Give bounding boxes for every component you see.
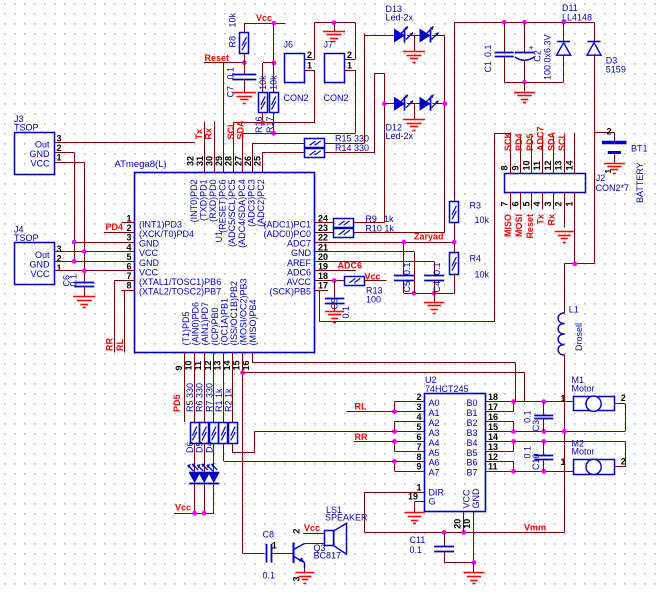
svg-text:GND: GND bbox=[139, 258, 160, 268]
svg-text:SCL: SCL bbox=[557, 132, 567, 151]
svg-text:5: 5 bbox=[126, 252, 131, 262]
svg-text:15: 15 bbox=[488, 422, 498, 432]
svg-text:TSOP: TSOP bbox=[14, 123, 39, 133]
svg-text:CON2*7: CON2*7 bbox=[596, 183, 630, 193]
svg-text:Rx: Rx bbox=[204, 128, 214, 140]
svg-text:MISO: MISO bbox=[503, 214, 513, 237]
svg-text:2: 2 bbox=[292, 529, 302, 534]
svg-text:11: 11 bbox=[488, 462, 498, 472]
svg-text:74HCT245: 74HCT245 bbox=[425, 384, 469, 394]
svg-text:3: 3 bbox=[126, 233, 131, 243]
svg-text:Led-2x: Led-2x bbox=[386, 131, 414, 141]
svg-text:C9: C9 bbox=[329, 298, 339, 310]
svg-text:100.0x6.3V: 100.0x6.3V bbox=[543, 34, 553, 80]
svg-text:D5: D5 bbox=[195, 441, 205, 453]
svg-text:J7: J7 bbox=[324, 40, 334, 50]
svg-text:(INT1)PD3: (INT1)PD3 bbox=[139, 219, 182, 229]
svg-text:1: 1 bbox=[57, 263, 62, 273]
svg-text:21: 21 bbox=[318, 242, 328, 252]
svg-text:6: 6 bbox=[511, 201, 521, 206]
svg-text:A7: A7 bbox=[429, 468, 440, 478]
svg-text:Motor: Motor bbox=[572, 384, 595, 394]
svg-text:8: 8 bbox=[500, 165, 510, 170]
svg-text:D11: D11 bbox=[562, 3, 578, 13]
svg-text:0.1: 0.1 bbox=[483, 44, 493, 57]
svg-text:4: 4 bbox=[532, 201, 542, 206]
svg-text:30: 30 bbox=[205, 156, 215, 166]
svg-text:5: 5 bbox=[416, 422, 421, 432]
svg-text:31: 31 bbox=[195, 156, 205, 166]
svg-text:10k: 10k bbox=[475, 215, 490, 225]
svg-text:C4: C4 bbox=[432, 281, 442, 293]
svg-text:7: 7 bbox=[500, 201, 510, 206]
svg-text:9: 9 bbox=[511, 165, 521, 170]
svg-text:25: 25 bbox=[253, 156, 263, 166]
svg-text:GND: GND bbox=[30, 149, 51, 159]
svg-text:(ADC3)PC3: (ADC3)PC3 bbox=[246, 179, 256, 227]
svg-text:Reset: Reset bbox=[205, 53, 230, 63]
svg-text:1: 1 bbox=[560, 394, 565, 404]
svg-text:Out: Out bbox=[35, 139, 50, 149]
svg-text:PD5: PD5 bbox=[525, 133, 535, 151]
svg-text:MOSI: MOSI bbox=[514, 214, 524, 237]
svg-text:0.1: 0.1 bbox=[402, 262, 412, 275]
svg-text:22: 22 bbox=[318, 233, 328, 243]
svg-text:29: 29 bbox=[214, 156, 224, 166]
svg-text:R2 1k: R2 1k bbox=[224, 388, 234, 412]
svg-text:17: 17 bbox=[318, 281, 328, 291]
svg-text:BATTERY: BATTERY bbox=[635, 162, 645, 203]
svg-text:RR: RR bbox=[355, 432, 368, 442]
svg-text:BT1: BT1 bbox=[631, 143, 648, 153]
svg-text:R14 330: R14 330 bbox=[335, 143, 369, 153]
svg-text:100: 100 bbox=[366, 294, 381, 304]
svg-text:A1: A1 bbox=[429, 408, 440, 418]
svg-text:Vmm: Vmm bbox=[524, 523, 546, 533]
svg-text:1: 1 bbox=[57, 153, 62, 163]
svg-text:18: 18 bbox=[488, 392, 498, 402]
svg-text:1k: 1k bbox=[384, 214, 394, 224]
svg-text:1: 1 bbox=[560, 457, 565, 467]
svg-text:13: 13 bbox=[488, 442, 498, 452]
svg-text:Vcc: Vcc bbox=[304, 523, 320, 533]
svg-text:VCC: VCC bbox=[139, 267, 159, 277]
svg-text:(XCK/T0)PD4: (XCK/T0)PD4 bbox=[139, 229, 194, 239]
svg-text:27: 27 bbox=[233, 156, 243, 166]
svg-text:R4: R4 bbox=[470, 254, 482, 264]
svg-text:2: 2 bbox=[126, 223, 131, 233]
svg-text:SCK: SCK bbox=[503, 131, 513, 151]
svg-text:2: 2 bbox=[621, 393, 626, 403]
svg-text:SDA: SDA bbox=[546, 131, 556, 151]
svg-text:2: 2 bbox=[607, 127, 612, 137]
svg-text:1: 1 bbox=[307, 61, 312, 71]
svg-text:Drosell: Drosell bbox=[574, 323, 584, 351]
svg-text:VCC: VCC bbox=[139, 248, 159, 258]
svg-text:7: 7 bbox=[416, 442, 421, 452]
svg-text:(XTAL2/TOSC2)PB7: (XTAL2/TOSC2)PB7 bbox=[139, 287, 221, 297]
svg-text:(MISO)PB4: (MISO)PB4 bbox=[248, 299, 258, 345]
svg-text:Rx: Rx bbox=[546, 214, 556, 226]
svg-text:19: 19 bbox=[408, 492, 418, 502]
svg-text:B5: B5 bbox=[467, 448, 478, 458]
svg-text:3: 3 bbox=[543, 201, 553, 206]
svg-text:R6 330: R6 330 bbox=[195, 383, 205, 412]
svg-text:PD4: PD4 bbox=[106, 222, 124, 232]
svg-text:9: 9 bbox=[416, 462, 421, 472]
svg-text:R8: R8 bbox=[228, 36, 238, 48]
svg-text:0.1: 0.1 bbox=[263, 571, 276, 581]
svg-text:4: 4 bbox=[416, 412, 421, 422]
svg-text:Reset: Reset bbox=[525, 214, 535, 239]
svg-text:GND: GND bbox=[291, 248, 312, 258]
svg-text:D6: D6 bbox=[185, 441, 195, 453]
svg-text:GND: GND bbox=[30, 260, 51, 270]
svg-text:6: 6 bbox=[416, 432, 421, 442]
svg-text:U1: U1 bbox=[214, 231, 224, 243]
svg-text:20: 20 bbox=[318, 252, 328, 262]
svg-text:2: 2 bbox=[347, 50, 352, 60]
svg-text:RL: RL bbox=[115, 339, 125, 351]
svg-text:ADC7: ADC7 bbox=[536, 126, 546, 151]
svg-text:C5: C5 bbox=[402, 281, 412, 293]
svg-text:Tx: Tx bbox=[194, 129, 204, 140]
svg-text:RL: RL bbox=[355, 402, 367, 412]
svg-text:(SCK)PB5: (SCK)PB5 bbox=[269, 287, 311, 297]
svg-text:ATmega8(L): ATmega8(L) bbox=[115, 159, 167, 170]
svg-text:D4: D4 bbox=[204, 441, 214, 453]
svg-text:10k: 10k bbox=[258, 75, 268, 90]
svg-text:0.1: 0.1 bbox=[226, 67, 236, 80]
svg-text:C11: C11 bbox=[410, 535, 426, 545]
svg-text:B0: B0 bbox=[467, 398, 478, 408]
svg-text:BC817: BC817 bbox=[314, 551, 342, 561]
svg-text:VCC: VCC bbox=[462, 489, 472, 509]
svg-text:SPEAKER: SPEAKER bbox=[325, 512, 368, 522]
svg-text:0.1: 0.1 bbox=[69, 274, 79, 287]
svg-text:GND: GND bbox=[471, 488, 481, 509]
svg-text:AREF: AREF bbox=[287, 258, 312, 268]
svg-text:7: 7 bbox=[126, 271, 131, 281]
svg-text:2: 2 bbox=[416, 392, 421, 402]
svg-text:SCL: SCL bbox=[226, 121, 236, 140]
svg-text:L1: L1 bbox=[569, 304, 579, 314]
svg-text:(AIN1)PD7: (AIN1)PD7 bbox=[200, 302, 210, 346]
svg-text:Tx: Tx bbox=[536, 214, 546, 225]
svg-text:A2: A2 bbox=[429, 418, 440, 428]
svg-text:Vcc: Vcc bbox=[256, 13, 272, 23]
svg-text:PD4: PD4 bbox=[514, 133, 524, 151]
svg-text:C8: C8 bbox=[263, 529, 275, 539]
svg-text:GND: GND bbox=[139, 239, 160, 249]
svg-text:PD5: PD5 bbox=[172, 394, 182, 412]
svg-text:A0: A0 bbox=[429, 398, 440, 408]
svg-text:26: 26 bbox=[243, 156, 253, 166]
svg-text:A5: A5 bbox=[429, 448, 440, 458]
svg-text:(OC1A)PB1: (OC1A)PB1 bbox=[219, 298, 229, 346]
svg-text:1: 1 bbox=[126, 214, 131, 224]
svg-text:12: 12 bbox=[488, 452, 498, 462]
svg-text:C3: C3 bbox=[531, 420, 541, 432]
svg-text:VCC: VCC bbox=[30, 159, 50, 169]
svg-text:B1: B1 bbox=[467, 408, 478, 418]
svg-text:3: 3 bbox=[416, 402, 421, 412]
svg-text:Led-2x: Led-2x bbox=[386, 12, 414, 22]
svg-text:2: 2 bbox=[621, 456, 626, 466]
svg-text:ADC6: ADC6 bbox=[287, 267, 311, 277]
svg-text:13: 13 bbox=[554, 160, 564, 170]
svg-text:(AIN0)PD6: (AIN0)PD6 bbox=[191, 302, 201, 346]
svg-text:10k: 10k bbox=[269, 75, 279, 90]
svg-text:1: 1 bbox=[604, 169, 613, 174]
svg-text:2: 2 bbox=[57, 143, 62, 153]
svg-text:(ADC5/SCL)PC5: (ADC5/SCL)PC5 bbox=[227, 179, 237, 247]
svg-text:(ISS/OC1B)PB2: (ISS/OC1B)PB2 bbox=[229, 281, 239, 346]
svg-text:3: 3 bbox=[292, 576, 302, 581]
svg-text:R1 1k: R1 1k bbox=[214, 388, 224, 412]
svg-text:10: 10 bbox=[521, 160, 531, 170]
svg-text:Zaryad: Zaryad bbox=[414, 232, 444, 242]
svg-text:5159: 5159 bbox=[606, 65, 626, 75]
svg-text:11: 11 bbox=[532, 161, 542, 171]
svg-text:A4: A4 bbox=[429, 438, 440, 448]
svg-text:(ADC1)PC1: (ADC1)PC1 bbox=[263, 219, 311, 229]
svg-text:R3: R3 bbox=[470, 200, 482, 210]
svg-text:17: 17 bbox=[488, 402, 498, 412]
svg-text:C10: C10 bbox=[531, 453, 541, 470]
svg-text:4: 4 bbox=[126, 242, 131, 252]
svg-text:2: 2 bbox=[57, 254, 62, 264]
svg-text:32: 32 bbox=[185, 156, 195, 166]
svg-text:10k: 10k bbox=[475, 269, 490, 279]
svg-text:R5 330: R5 330 bbox=[185, 383, 195, 412]
svg-text:B2: B2 bbox=[467, 418, 478, 428]
svg-text:0.1: 0.1 bbox=[410, 545, 423, 555]
svg-text:15: 15 bbox=[232, 360, 242, 370]
svg-text:1: 1 bbox=[272, 540, 277, 550]
svg-text:14: 14 bbox=[488, 432, 498, 442]
svg-text:SDA: SDA bbox=[236, 120, 246, 140]
svg-text:2: 2 bbox=[554, 201, 564, 206]
svg-text:C2: C2 bbox=[533, 50, 543, 62]
svg-text:(T1)PD5: (T1)PD5 bbox=[181, 311, 191, 345]
svg-text:(RXD)PD0: (RXD)PD0 bbox=[208, 179, 218, 222]
svg-text:C1: C1 bbox=[483, 61, 493, 73]
svg-text:B3: B3 bbox=[467, 428, 478, 438]
svg-text:(ADC0)PC0: (ADC0)PC0 bbox=[263, 229, 311, 239]
svg-text:B4: B4 bbox=[467, 438, 478, 448]
svg-text:12: 12 bbox=[543, 160, 553, 170]
svg-text:TSOP: TSOP bbox=[14, 233, 39, 243]
svg-text:(ADC4/SDA)PC4: (ADC4/SDA)PC4 bbox=[237, 179, 247, 248]
svg-text:23: 23 bbox=[318, 223, 328, 233]
svg-text:Motor: Motor bbox=[572, 447, 595, 457]
svg-text:8: 8 bbox=[126, 281, 131, 291]
svg-text:(TXD)PD1: (TXD)PD1 bbox=[198, 179, 208, 221]
svg-text:VCC: VCC bbox=[30, 269, 50, 279]
svg-text:(XTAL1/TOSC1)PB6: (XTAL1/TOSC1)PB6 bbox=[139, 277, 221, 287]
svg-text:(ICP)PB0: (ICP)PB0 bbox=[210, 307, 220, 345]
svg-text:10: 10 bbox=[462, 519, 472, 529]
svg-text:9: 9 bbox=[174, 365, 184, 370]
svg-text:A6: A6 bbox=[429, 458, 440, 468]
svg-text:B6: B6 bbox=[467, 458, 478, 468]
svg-text:R15 330: R15 330 bbox=[335, 133, 369, 143]
svg-text:1: 1 bbox=[347, 61, 352, 71]
svg-text:(ADC2)PC2: (ADC2)PC2 bbox=[256, 179, 266, 227]
svg-text:5: 5 bbox=[521, 201, 531, 206]
svg-text:G: G bbox=[429, 497, 436, 507]
svg-text:1: 1 bbox=[565, 201, 575, 206]
svg-text:J6: J6 bbox=[284, 40, 294, 50]
svg-text:C7: C7 bbox=[226, 86, 236, 98]
svg-text:A3: A3 bbox=[429, 428, 440, 438]
svg-text:R10 1k: R10 1k bbox=[365, 224, 394, 234]
svg-text:Vcc: Vcc bbox=[175, 503, 191, 513]
svg-text:(INT0)PD2: (INT0)PD2 bbox=[189, 179, 199, 222]
svg-text:0.1: 0.1 bbox=[341, 306, 351, 319]
svg-text:10: 10 bbox=[184, 360, 194, 370]
svg-text:(RESET)PC6: (RESET)PC6 bbox=[218, 179, 228, 233]
svg-text:3: 3 bbox=[57, 244, 62, 254]
svg-text:20: 20 bbox=[453, 519, 463, 529]
svg-text:AVCC: AVCC bbox=[287, 277, 312, 287]
svg-text:LL4148: LL4148 bbox=[562, 13, 592, 23]
svg-text:16: 16 bbox=[488, 412, 498, 422]
svg-text:10k: 10k bbox=[228, 12, 238, 27]
svg-text:ADC7: ADC7 bbox=[287, 239, 311, 249]
svg-text:8: 8 bbox=[416, 452, 421, 462]
svg-text:RR: RR bbox=[105, 338, 115, 351]
svg-text:ADC6: ADC6 bbox=[338, 260, 363, 270]
svg-text:(MOSI/OC2)PB3: (MOSI/OC2)PB3 bbox=[239, 278, 249, 345]
svg-text:R9: R9 bbox=[365, 214, 377, 224]
svg-text:28: 28 bbox=[224, 156, 234, 166]
svg-text:0.1: 0.1 bbox=[432, 262, 442, 275]
svg-text:CON2: CON2 bbox=[324, 93, 349, 103]
svg-text:B7: B7 bbox=[467, 468, 478, 478]
svg-text:18: 18 bbox=[318, 271, 328, 281]
svg-text:Vcc: Vcc bbox=[365, 272, 381, 282]
svg-text:2: 2 bbox=[307, 50, 312, 60]
svg-text:14: 14 bbox=[565, 160, 575, 170]
svg-text:CON2: CON2 bbox=[284, 93, 309, 103]
svg-text:Out: Out bbox=[35, 250, 50, 260]
svg-text:R7 330: R7 330 bbox=[204, 383, 214, 412]
